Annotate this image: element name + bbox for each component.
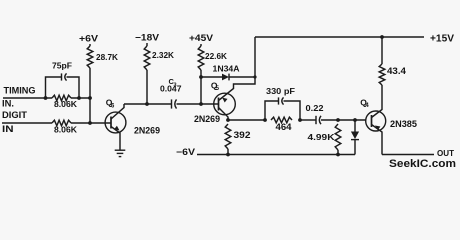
svg-text:464: 464 xyxy=(276,122,292,132)
svg-text:2N269: 2N269 xyxy=(194,114,220,124)
svg-text:43.4: 43.4 xyxy=(387,66,406,76)
svg-text:0.047: 0.047 xyxy=(160,85,182,94)
svg-text:8.06K: 8.06K xyxy=(54,100,77,109)
svg-text:2.32K: 2.32K xyxy=(152,51,174,60)
svg-text:TIMING: TIMING xyxy=(4,86,36,96)
svg-text:DIGIT: DIGIT xyxy=(2,110,28,120)
svg-text:+15V: +15V xyxy=(430,34,454,45)
svg-text:0.22: 0.22 xyxy=(306,103,324,113)
svg-text:1N34A: 1N34A xyxy=(213,65,240,74)
svg-text:SeekIC.com: SeekIC.com xyxy=(389,158,456,170)
svg-text:IN: IN xyxy=(2,124,14,134)
svg-text:392: 392 xyxy=(234,130,251,140)
svg-text:8.06K: 8.06K xyxy=(54,126,77,135)
svg-text:OUT: OUT xyxy=(437,149,454,158)
svg-text:75pF: 75pF xyxy=(52,62,72,71)
svg-text:−18V: −18V xyxy=(135,33,159,43)
svg-text:22.6K: 22.6K xyxy=(205,52,227,61)
svg-text:4.99K: 4.99K xyxy=(308,132,336,142)
svg-text:+45V: +45V xyxy=(189,33,213,43)
svg-text:330 pF: 330 pF xyxy=(266,87,295,96)
svg-text:+6V: +6V xyxy=(79,34,98,44)
svg-text:IN.: IN. xyxy=(2,99,14,109)
svg-text:2N385: 2N385 xyxy=(390,119,417,129)
svg-text:2N269: 2N269 xyxy=(134,126,160,136)
svg-text:28.7K: 28.7K xyxy=(96,53,118,62)
svg-text:−6V: −6V xyxy=(176,147,195,157)
